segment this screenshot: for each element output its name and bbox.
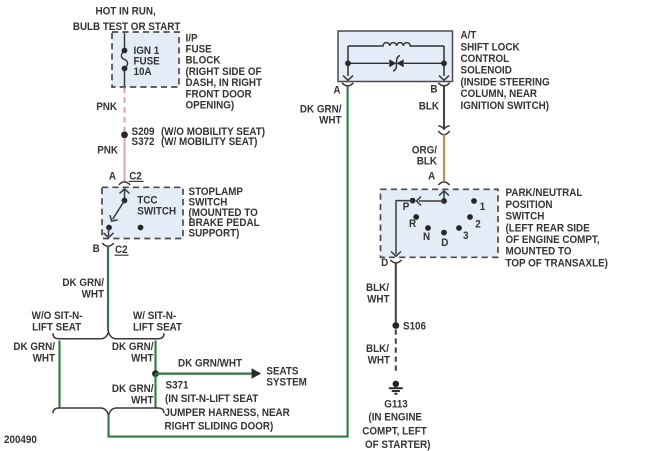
PNP wiper arm [417,197,445,206]
svg-text:TOP OF TRANSAXLE): TOP OF TRANSAXLE) [506,258,608,269]
svg-text:OF ENGINE COMPT,: OF ENGINE COMPT, [506,235,600,246]
inline connector arrow [438,126,449,129]
svg-text:ORG/: ORG/ [412,145,437,156]
splice label S106 [403,321,426,332]
svg-text:W/O SIT-N-: W/O SIT-N- [32,311,83,322]
solenoid node left [345,60,351,66]
wire label PNK [96,102,117,113]
PNP contact R [413,214,419,220]
wire DK GRN/WHT from switch [107,246,109,331]
wire label ORG/BLK [412,145,438,167]
PNP pin A arc [438,182,449,185]
svg-text:DK GRN/: DK GRN/ [62,278,104,289]
svg-text:SHIFT LOCK: SHIFT LOCK [461,42,521,53]
wire branch W/O seat [58,341,60,408]
svg-text:WHT: WHT [319,115,342,126]
PNP wiper node [441,198,447,204]
svg-text:B: B [93,244,100,255]
svg-text:PNK: PNK [96,102,117,113]
PNP terminal D label [381,258,388,269]
svg-text:DK GRN/: DK GRN/ [300,104,342,115]
wire BLK from solenoid B [443,87,445,129]
svg-text:C2: C2 [129,171,142,182]
svg-text:OPENING): OPENING) [186,100,235,111]
PNP contact D [441,230,447,236]
wire label DK GRN/WHT to seats [178,358,243,369]
A/T shift lock solenoid description [461,30,550,112]
PNP contact label 1 [480,202,486,213]
svg-text:W/ SIT-N-: W/ SIT-N- [133,311,176,322]
svg-text:N: N [423,232,430,243]
svg-text:D: D [441,238,448,249]
svg-text:C2: C2 [115,245,128,256]
splice S371 [152,370,159,377]
park/neutral position switch box [381,189,499,257]
option labels W/O / W/ SIT-N-LIFT SEAT [32,311,183,334]
splice labels S209 S372 [132,127,266,149]
svg-text:POSITION: POSITION [506,200,553,211]
PNP contact 3 [456,225,462,231]
wire label DK GRN/WHT right branch [112,342,154,365]
svg-text:DK GRN/WHT: DK GRN/WHT [178,358,243,369]
solenoid node right [441,60,447,66]
TCC switch spare contact [138,225,144,231]
svg-text:MOUNTED TO: MOUNTED TO [506,246,572,257]
PNP contact label 3 [463,231,469,242]
stoplamp switch description [189,187,260,240]
PNP pin D socket [390,260,401,263]
A/T shift lock control solenoid box [338,31,453,82]
svg-text:10A: 10A [134,67,153,78]
PNP contact 2 [467,214,473,220]
wire label PNK [97,145,118,156]
wire label BLK/WHT lower [366,344,391,367]
wire BLK/WHT dashed [395,330,397,373]
svg-text:COMPT, LEFT: COMPT, LEFT [362,426,427,437]
svg-text:FRONT DOOR: FRONT DOOR [186,89,253,100]
svg-text:JUMPER HARNESS, NEAR: JUMPER HARNESS, NEAR [165,408,291,419]
svg-text:SYSTEM: SYSTEM [266,377,306,388]
svg-text:DK GRN/: DK GRN/ [112,342,154,353]
PNP output route [391,201,413,257]
svg-text:HOT IN RUN,: HOT IN RUN, [96,6,156,17]
wire BLK/WHT upper [395,263,397,322]
wire DK GRN/WHT run to solenoid [109,86,348,436]
PNP contact N [425,225,431,231]
svg-text:PNK: PNK [97,145,118,156]
PNP contact label N [423,232,430,243]
solenoid coil L1 [348,43,444,46]
wire label DK GRN/WHT below splice [112,384,154,407]
svg-text:I/P: I/P [186,33,198,44]
fuse value label IGN 1 FUSE 10A [134,46,160,79]
svg-text:200490: 200490 [4,435,37,446]
svg-text:S106: S106 [403,321,426,332]
I/P fuse block box [112,32,179,87]
solenoid terminal B lead [439,46,449,80]
svg-text:(W/ MOBILITY SEAT): (W/ MOBILITY SEAT) [161,137,257,148]
connector C2 terminal A label [109,171,117,182]
svg-text:1: 1 [480,202,486,213]
svg-text:DK GRN/: DK GRN/ [112,384,154,395]
solenoid pin A socket [342,83,353,86]
svg-text:BLK/: BLK/ [366,283,389,294]
svg-text:S371: S371 [166,380,189,391]
svg-text:BLK: BLK [419,101,440,112]
svg-text:COLUMN, NEAR: COLUMN, NEAR [461,89,538,100]
svg-text:WHT: WHT [368,355,391,366]
svg-text:B: B [430,84,437,95]
svg-text:CONTROL: CONTROL [461,54,510,65]
svg-text:IGNITION SWITCH): IGNITION SWITCH) [461,101,550,112]
svg-text:RIGHT SLIDING DOOR): RIGHT SLIDING DOOR) [165,421,274,432]
svg-text:(LEFT REAR SIDE: (LEFT REAR SIDE [506,223,590,234]
svg-text:TCC: TCC [137,195,158,206]
PNP contact label P [403,202,410,213]
connector C2 pin A arc [119,182,130,185]
svg-text:LIFT SEAT: LIFT SEAT [133,322,183,333]
svg-text:SEATS: SEATS [266,366,298,377]
wire to seats system [156,373,252,375]
diagram number 200490 [4,435,37,446]
svg-text:PARK/NEUTRAL: PARK/NEUTRAL [506,188,583,199]
svg-text:WHT: WHT [33,353,56,364]
solenoid pin B socket [438,83,449,86]
wire fuse feed inside box [124,33,126,51]
connector C2 pin B arc [102,243,113,246]
PNP contact label D [441,238,448,249]
svg-text:DASH, IN RIGHT: DASH, IN RIGHT [186,78,263,89]
TCC switch output contact [106,225,112,231]
wire fuse to box edge [124,69,126,87]
splice S106 [392,322,399,329]
svg-text:SOLENOID: SOLENOID [461,65,512,76]
wire branch W/ seat lower [154,374,156,408]
wire label BLK/WHT [366,283,390,306]
svg-text:(RIGHT SIDE OF: (RIGHT SIDE OF [186,67,262,78]
connector C2 name [129,171,144,182]
solenoid suppression diode CR1 [348,55,444,71]
svg-text:OF STARTER): OF STARTER) [365,440,430,451]
wire label BLK [419,101,440,112]
svg-text:WHT: WHT [131,353,154,364]
svg-text:(IN ENGINE: (IN ENGINE [368,412,422,423]
svg-text:BLK/: BLK/ [366,344,389,355]
svg-text:SWITCH: SWITCH [137,206,176,217]
PNP contact P [410,198,416,204]
svg-text:S372: S372 [132,137,155,148]
svg-text:(INSIDE STEERING: (INSIDE STEERING [461,77,550,88]
wire ORG/BLK [443,135,445,183]
PNP terminal A label [428,171,436,182]
I/P fuse block description [186,33,263,112]
svg-text:SUPPORT): SUPPORT) [189,228,240,239]
svg-text:WHT: WHT [131,395,154,406]
header text HOT IN RUN, BULB TEST OR START [73,6,181,33]
solenoid terminal B label [430,84,437,95]
arrow to seats system [252,368,262,378]
split brace bottom [53,408,164,416]
svg-text:WHT: WHT [367,294,390,305]
svg-text:A: A [109,171,117,182]
stoplamp switch TCC box [102,187,183,238]
wire branch W/ seat upper [154,341,156,374]
TCC switch name label [137,195,176,217]
splice S371 description [165,380,291,433]
svg-text:A: A [333,85,341,96]
svg-text:2: 2 [475,219,481,230]
svg-text:(IN SIT-N-LIFT SEAT: (IN SIT-N-LIFT SEAT [165,394,259,405]
svg-text:A: A [428,171,436,182]
ground G113 description [362,399,430,451]
PNP contact label R [409,219,417,230]
svg-text:R: R [409,219,417,230]
TCC switch blade [110,201,125,222]
TCC switch output arrow [104,228,114,238]
PNP input arrow [439,191,449,201]
fuse IGN 1 10A symbol [121,48,127,72]
splice S209/S372 [121,131,128,138]
solenoid terminal A lead [343,46,353,80]
PNP contact label 2 [475,219,481,230]
TCC switch common contact [122,198,128,204]
connector C2 terminal B label [93,244,100,255]
svg-text:G113: G113 [384,399,408,410]
connector C2 name [115,245,129,256]
wire label DK GRN/WHT left branch [13,342,55,365]
svg-text:SWITCH: SWITCH [506,211,545,222]
split brace top [53,332,164,339]
wire label DK GRN/WHT solenoid A [300,104,342,126]
park/neutral switch description [506,188,608,270]
wire PNK solid segment [123,138,125,182]
svg-text:LIFT SEAT: LIFT SEAT [32,322,82,333]
svg-text:WHT: WHT [82,289,105,300]
PNP contact 1 [471,198,477,204]
ground G113 symbol [389,381,403,394]
svg-text:FUSE: FUSE [186,44,212,55]
wire label DK GRN/WHT [62,278,104,301]
inline connector socket [438,131,449,135]
svg-text:BLK: BLK [417,156,438,167]
svg-text:DK GRN/: DK GRN/ [13,342,55,353]
svg-text:A/T: A/T [461,30,478,41]
svg-text:D: D [381,258,388,269]
TCC switch input arrow [120,189,130,201]
svg-text:P: P [403,202,410,213]
svg-text:3: 3 [463,231,469,242]
svg-text:BLOCK: BLOCK [186,55,222,66]
solenoid terminal A label [333,85,341,96]
wire PNK dashed segment [123,88,125,132]
seats system label [266,366,306,388]
